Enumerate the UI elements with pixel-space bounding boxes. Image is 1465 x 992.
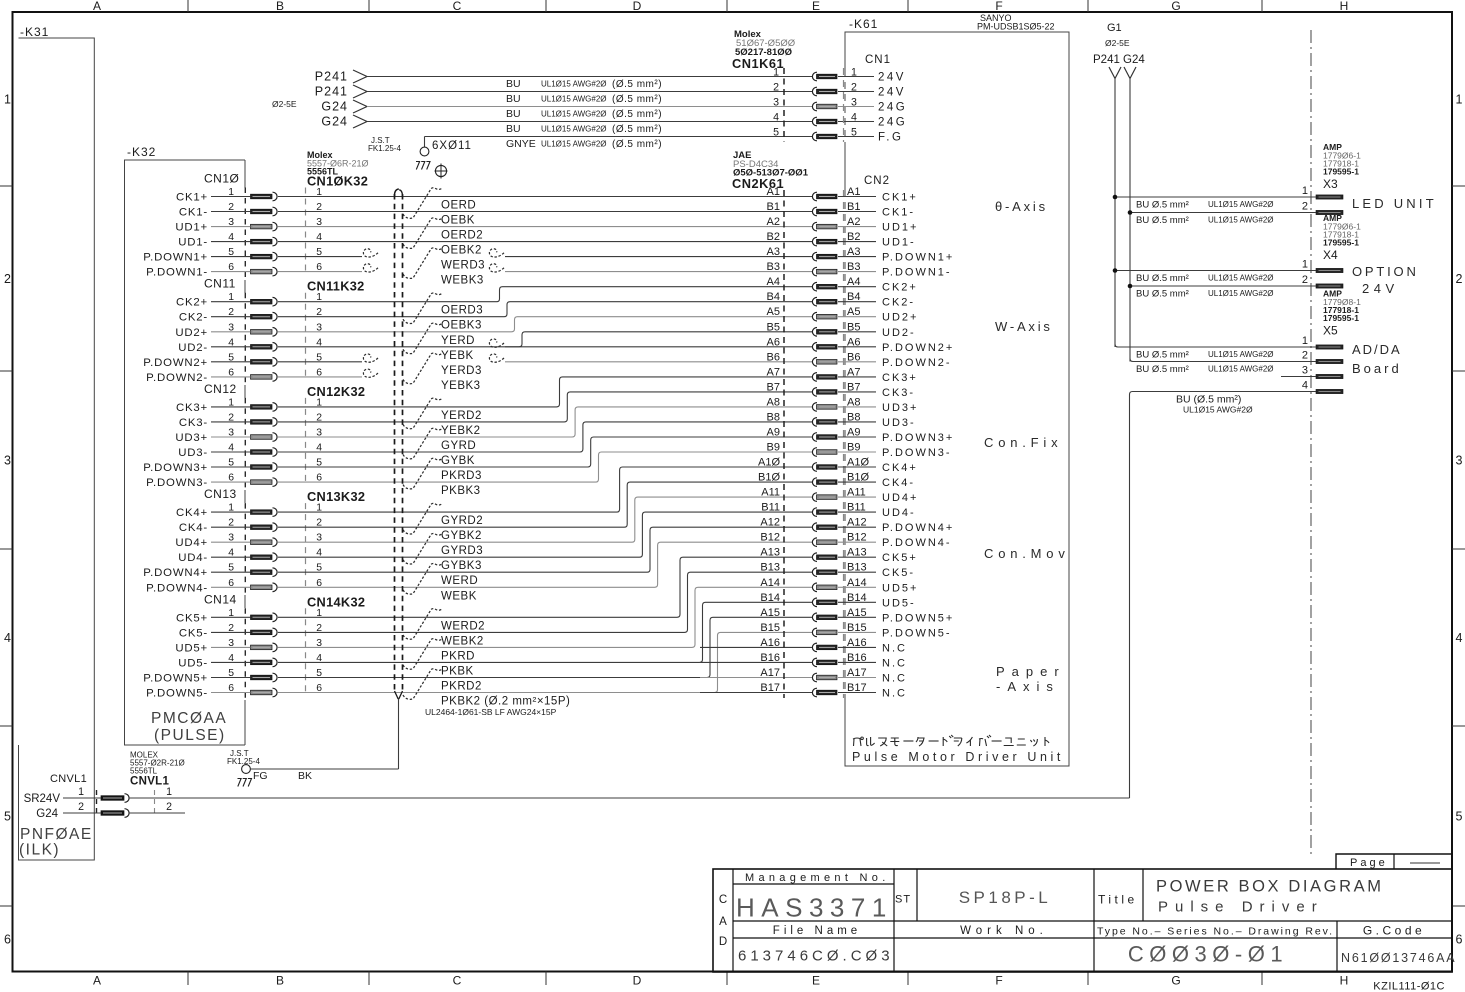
- wire P.DOWN3- (PKBK3) CN12 pin 6: [146, 452, 812, 497]
- svg-text:CK3-: CK3-: [882, 387, 915, 399]
- svg-text:CK2+: CK2+: [176, 297, 208, 309]
- connector X5 AMP 177908-1 AD/DA Board: [1302, 289, 1402, 394]
- svg-text:CØØ3Ø-Ø1: CØØ3Ø-Ø1: [1128, 942, 1288, 967]
- wire UD4+ (GYRD3) CN13 pin 3: [175, 497, 812, 557]
- svg-text:OEBK3: OEBK3: [441, 320, 482, 332]
- svg-text:6XØ11: 6XØ11: [432, 140, 472, 152]
- svg-text:A: A: [719, 916, 727, 928]
- svg-text:CK2-: CK2-: [179, 312, 208, 324]
- svg-text:PKRD: PKRD: [441, 650, 475, 662]
- wire CK2+ (OERD3) CN11 pin 1: [176, 287, 812, 317]
- wire P241 vertical bus: [1114, 79, 1116, 348]
- wire X3 pin1 from P241 bus: [1113, 195, 1316, 211]
- svg-text:CNVL1: CNVL1: [130, 776, 170, 788]
- svg-text:D: D: [719, 936, 727, 948]
- svg-text:E: E: [812, 974, 820, 988]
- wire CK4- (GYBK2) CN13 pin 2: [179, 482, 812, 542]
- svg-text:B3: B3: [767, 261, 780, 273]
- svg-text:B14: B14: [760, 592, 780, 604]
- svg-text:B1: B1: [767, 201, 780, 213]
- wire CK1- (OEBK) CN10 pin 2: [179, 188, 812, 227]
- svg-text:F: F: [995, 0, 1002, 13]
- svg-text:UL1Ø15 AWG#2Ø: UL1Ø15 AWG#2Ø: [1183, 405, 1253, 415]
- svg-text:W-Axis: W-Axis: [995, 319, 1053, 334]
- svg-text:PKBK: PKBK: [441, 665, 474, 677]
- svg-text:G24: G24: [321, 100, 348, 114]
- svg-text:UL1Ø15 AWG#2Ø: UL1Ø15 AWG#2Ø: [541, 110, 607, 119]
- svg-text:179595-1: 179595-1: [1323, 313, 1359, 323]
- svg-text:BU Ø.5 mm²: BU Ø.5 mm²: [1136, 350, 1189, 361]
- svg-text:(PULSE): (PULSE): [154, 727, 226, 744]
- svg-text:OPTION: OPTION: [1352, 264, 1419, 279]
- svg-text:G1: G1: [1107, 22, 1122, 34]
- svg-text:B1Ø: B1Ø: [758, 472, 780, 484]
- wire CN1 pin 4 24G: [321, 112, 907, 136]
- svg-text:-K61: -K61: [849, 17, 878, 31]
- wire UD5+ (PKRD) CN14 pin 3: [175, 587, 812, 662]
- ground terminal J.S.T FK1.25-4 6X011 with protective earth: [368, 136, 472, 179]
- svg-text:WERD2: WERD2: [441, 620, 485, 632]
- svg-text:A1: A1: [767, 186, 780, 198]
- svg-text:CK3+: CK3+: [882, 372, 918, 384]
- svg-text:CK2-: CK2-: [882, 297, 915, 309]
- svg-text:6: 6: [4, 932, 11, 946]
- connector CN2K61 JAE PS-D4C34 / 050-51307-001: [732, 150, 869, 698]
- svg-text:A11: A11: [761, 487, 780, 499]
- svg-text:B9: B9: [767, 442, 780, 454]
- connector CN14 / CN14K32 Molex 5557-06R-210: [204, 592, 365, 700]
- svg-text:4: 4: [1302, 380, 1308, 392]
- wire G24 vertical bus: [1129, 79, 1131, 362]
- svg-text:CK1-: CK1-: [179, 207, 208, 219]
- svg-text:PKBK2 (Ø.2 mm²×15P): PKBK2 (Ø.2 mm²×15P): [441, 696, 570, 708]
- svg-text:3: 3: [851, 97, 857, 109]
- svg-text:P.DOWN2+: P.DOWN2+: [143, 357, 208, 369]
- svg-text:CK1+: CK1+: [882, 192, 918, 204]
- svg-text:CK5-: CK5-: [179, 627, 208, 639]
- svg-text:Ø2-5E: Ø2-5E: [272, 99, 297, 109]
- svg-text:GYRD2: GYRD2: [441, 515, 483, 527]
- svg-text:179595-1: 179595-1: [1323, 238, 1359, 248]
- svg-text:P.DOWN4+: P.DOWN4+: [882, 522, 954, 534]
- label theta-Axis: [995, 199, 1048, 214]
- svg-text:Pulse Motor Driver Unit: Pulse Motor Driver Unit: [852, 750, 1064, 764]
- page box: [1336, 854, 1452, 869]
- svg-text:UL2464-1Ø61-SB LF AWG24×15P: UL2464-1Ø61-SB LF AWG24×15P: [425, 707, 557, 717]
- svg-text:F: F: [995, 974, 1002, 988]
- svg-text:Con.Fix: Con.Fix: [984, 435, 1062, 450]
- svg-text:OERD2: OERD2: [441, 230, 483, 242]
- wire X3 pin2 from G24 bus: [1128, 210, 1316, 226]
- svg-text:H: H: [1340, 974, 1349, 988]
- svg-text:UL1Ø15 AWG#2Ø: UL1Ø15 AWG#2Ø: [541, 95, 607, 104]
- svg-text:CK3+: CK3+: [176, 402, 208, 414]
- svg-text:(ILK): (ILK): [19, 842, 60, 859]
- svg-text:A6: A6: [767, 336, 780, 348]
- connector CN10 / CN10K32 Molex 5557-06R-210: [204, 150, 369, 280]
- wire CK3+ (YERD2) CN12 pin 1: [176, 377, 812, 422]
- svg-text:(Ø.5 mm²): (Ø.5 mm²): [612, 79, 662, 90]
- svg-text:UL1Ø15 AWG#2Ø: UL1Ø15 AWG#2Ø: [1208, 216, 1274, 225]
- svg-text:B7: B7: [767, 381, 780, 393]
- svg-text:2: 2: [1302, 350, 1308, 362]
- svg-text:1: 1: [1456, 93, 1463, 107]
- wire CK5+ (WERD2) CN14 pin 1: [176, 557, 812, 632]
- svg-text:P.DOWN1-: P.DOWN1-: [882, 267, 952, 279]
- wire X5 pin4 to SR24V (CNVL1): [1130, 392, 1317, 799]
- svg-text:GYRD: GYRD: [441, 440, 476, 452]
- wire SR24V CNVL1 pin1: [24, 793, 1130, 805]
- svg-text:A14: A14: [760, 577, 780, 589]
- svg-text:UD3+: UD3+: [882, 402, 918, 414]
- svg-text:YERD3: YERD3: [441, 365, 482, 377]
- svg-text:CN1Ø: CN1Ø: [204, 172, 239, 186]
- svg-text:WEBK3: WEBK3: [441, 275, 484, 287]
- svg-text:2: 2: [166, 801, 172, 813]
- svg-text:GYBK2: GYBK2: [441, 530, 482, 542]
- wire P.DOWN5- (PKBK2) CN14 pin 6: [146, 632, 812, 717]
- svg-text:BK: BK: [298, 770, 312, 782]
- svg-text:UD2-: UD2-: [178, 342, 208, 354]
- wire CN1 pin 3 24G: [321, 97, 907, 121]
- svg-text:C: C: [719, 894, 727, 906]
- svg-text:GYBK: GYBK: [441, 455, 475, 467]
- svg-text:C: C: [453, 0, 462, 13]
- svg-text:SR24V: SR24V: [24, 793, 61, 805]
- svg-text:A9: A9: [767, 427, 780, 439]
- svg-text:BU: BU: [506, 108, 521, 120]
- svg-text:P.DOWN3+: P.DOWN3+: [143, 462, 208, 474]
- title block: [713, 869, 1456, 972]
- svg-text:B13: B13: [760, 562, 780, 574]
- svg-text:A15: A15: [760, 607, 780, 619]
- svg-text:UD5-: UD5-: [178, 657, 208, 669]
- svg-text:OEBK: OEBK: [441, 215, 475, 227]
- svg-text:WERD: WERD: [441, 575, 478, 587]
- svg-text:GYRD3: GYRD3: [441, 545, 483, 557]
- svg-text:P.DOWN4-: P.DOWN4-: [146, 582, 208, 594]
- svg-text:Management No.: Management No.: [745, 872, 890, 884]
- svg-text:POWER BOX DIAGRAM: POWER BOX DIAGRAM: [1156, 878, 1384, 896]
- connector CN1K61 Molex 51067-0500 / 50217-8100: [732, 29, 844, 142]
- svg-text:CN1K61: CN1K61: [732, 56, 784, 71]
- svg-text:B5: B5: [767, 321, 780, 333]
- svg-text:A5: A5: [767, 306, 780, 318]
- svg-text:G: G: [1171, 974, 1180, 988]
- wire UD1+ (OERD2) CN10 pin 3: [175, 222, 812, 242]
- svg-text:GNYE: GNYE: [506, 138, 536, 150]
- svg-text:G: G: [1171, 0, 1180, 13]
- wire G24 CNVL1 pin2: [36, 808, 185, 820]
- svg-text:FK1.25-4: FK1.25-4: [227, 757, 260, 766]
- svg-text:Type No.– Series No.– Drawing: Type No.– Series No.– Drawing Rev.: [1097, 926, 1332, 938]
- svg-text:Work No.: Work No.: [960, 925, 1048, 937]
- svg-text:(Ø.5 mm²): (Ø.5 mm²): [612, 94, 662, 105]
- svg-text:G24: G24: [321, 115, 348, 129]
- svg-text:1: 1: [78, 786, 84, 798]
- svg-text:CK4-: CK4-: [179, 522, 208, 534]
- svg-text:P.DOWN4-: P.DOWN4-: [882, 537, 952, 549]
- pulse unit box -K32 PMC0AA (PULSE): [125, 145, 246, 745]
- svg-text:B: B: [276, 0, 284, 13]
- svg-text:OEBK2: OEBK2: [441, 245, 482, 257]
- connector CN13 / CN13K32 Molex 5557-06R-210: [204, 487, 365, 595]
- svg-text:UD3+: UD3+: [175, 432, 208, 444]
- svg-text:P.DOWN2-: P.DOWN2-: [882, 357, 952, 369]
- svg-text:24V: 24V: [878, 87, 906, 99]
- svg-text:24V: 24V: [1362, 281, 1399, 296]
- svg-text:B4: B4: [767, 291, 780, 303]
- svg-text:E: E: [812, 0, 820, 13]
- label Pulse Motor Driver Unit (Japanese katakana): [852, 735, 1064, 764]
- svg-text:PKBK3: PKBK3: [441, 485, 481, 497]
- wire CN1 pin 5 F.G: [425, 127, 904, 151]
- svg-text:YEBK: YEBK: [441, 350, 474, 362]
- svg-text:A2: A2: [767, 216, 780, 228]
- wire P.DOWN5+ (PKRD2) CN14 pin 5: [143, 617, 812, 692]
- svg-text:24V: 24V: [878, 72, 906, 84]
- svg-text:Title: Title: [1098, 893, 1138, 907]
- svg-text:-Axis: -Axis: [996, 679, 1060, 694]
- svg-text:GYBK3: GYBK3: [441, 560, 482, 572]
- svg-text:N61ØØ13746AA: N61ØØ13746AA: [1341, 951, 1456, 965]
- wire CN1 pin 1 24V: [315, 67, 906, 91]
- svg-text:X4: X4: [1323, 248, 1338, 262]
- svg-text:D: D: [633, 0, 642, 13]
- svg-text:A13: A13: [760, 547, 780, 559]
- connector X3 AMP 177906-1 LED UNIT: [1302, 142, 1437, 215]
- svg-text:P241: P241: [315, 85, 348, 99]
- relay box -K31 PNF0AE (ILK): [19, 25, 95, 860]
- svg-text:B11: B11: [761, 502, 780, 514]
- label W-Axis: [995, 319, 1053, 334]
- svg-text:A17: A17: [760, 667, 780, 679]
- svg-text:-K31: -K31: [20, 25, 49, 39]
- svg-text:179595-1: 179595-1: [1323, 167, 1359, 177]
- svg-text:UD2+: UD2+: [175, 327, 208, 339]
- svg-text:B6: B6: [767, 351, 780, 363]
- wire X5 pin2 from G24 bus (corner): [1130, 359, 1316, 376]
- svg-text:P.DOWN2-: P.DOWN2-: [146, 372, 208, 384]
- svg-text:CN1: CN1: [865, 54, 891, 66]
- svg-text:2: 2: [773, 82, 779, 94]
- wire P.DOWN1- (WEBK3) CN10 pin 6: [146, 248, 812, 287]
- svg-text:2: 2: [78, 801, 84, 813]
- svg-text:1: 1: [1302, 185, 1308, 197]
- svg-text:B17: B17: [760, 682, 780, 694]
- svg-text:PNFØAE: PNFØAE: [20, 826, 93, 843]
- svg-text:Board: Board: [1352, 361, 1402, 376]
- svg-text:N.C: N.C: [882, 657, 907, 669]
- svg-text:Pulse Driver: Pulse Driver: [1158, 899, 1324, 916]
- svg-text:P.DOWN1-: P.DOWN1-: [146, 267, 208, 279]
- svg-text:6: 6: [1456, 932, 1463, 946]
- svg-text:CK5+: CK5+: [882, 552, 918, 564]
- svg-text:UL1Ø15 AWG#2Ø: UL1Ø15 AWG#2Ø: [1208, 289, 1274, 298]
- svg-text:UL1Ø15 AWG#2Ø: UL1Ø15 AWG#2Ø: [541, 125, 607, 134]
- svg-text:1: 1: [1302, 259, 1308, 271]
- svg-text:A7: A7: [767, 366, 780, 378]
- svg-text:UD1+: UD1+: [882, 222, 918, 234]
- svg-text:FK1.25-4: FK1.25-4: [368, 144, 401, 153]
- svg-text:613746CØ.CØ3: 613746CØ.CØ3: [738, 948, 894, 965]
- svg-text:P.DOWN1+: P.DOWN1+: [882, 252, 954, 264]
- svg-text:BU: BU: [506, 123, 521, 135]
- svg-text:UL1Ø15 AWG#2Ø: UL1Ø15 AWG#2Ø: [541, 140, 607, 149]
- svg-text:(Ø.5 mm²): (Ø.5 mm²): [612, 109, 662, 120]
- svg-text:UD5+: UD5+: [175, 642, 208, 654]
- svg-text:LED UNIT: LED UNIT: [1352, 196, 1437, 211]
- svg-text:BU Ø.5 mm²: BU Ø.5 mm²: [1136, 289, 1189, 300]
- wire CK3- (YEBK2) CN12 pin 2: [179, 392, 812, 437]
- svg-text:CK4-: CK4-: [882, 477, 915, 489]
- svg-text:5556TL: 5556TL: [130, 767, 158, 776]
- svg-text:WERD3: WERD3: [441, 260, 485, 272]
- svg-text:1: 1: [1302, 335, 1308, 347]
- CN2 pin signal names: [838, 192, 954, 700]
- svg-text:UL1Ø15 AWG#2Ø: UL1Ø15 AWG#2Ø: [1208, 274, 1274, 283]
- svg-text:BU: BU: [506, 78, 521, 90]
- wire X4 pin2 from G24 bus: [1128, 284, 1316, 300]
- svg-text:B16: B16: [760, 652, 780, 664]
- svg-text:OERD: OERD: [441, 200, 476, 212]
- svg-text:G24: G24: [36, 808, 58, 820]
- connector CN12 / CN12K32 Molex 5557-06R-210: [204, 382, 365, 490]
- svg-text:24G: 24G: [878, 117, 907, 129]
- connector CN11 / CN11K32 Molex 5557-06R-210: [204, 277, 365, 385]
- svg-text:UD4+: UD4+: [175, 537, 208, 549]
- svg-text:B12: B12: [760, 532, 780, 544]
- svg-text:5: 5: [1456, 810, 1463, 824]
- wire X5 pin1 from P241 bus (corner): [1115, 344, 1316, 361]
- svg-text:B2: B2: [767, 231, 780, 243]
- svg-text:CK2+: CK2+: [882, 282, 918, 294]
- svg-text:Con.Mov: Con.Mov: [984, 546, 1070, 561]
- svg-text:X3: X3: [1323, 177, 1338, 191]
- svg-text:θ-Axis: θ-Axis: [995, 199, 1048, 214]
- svg-text:CK3-: CK3-: [179, 417, 208, 429]
- boundary line (dash-dot) power box edge: [1310, 30, 1312, 858]
- svg-text:X5: X5: [1323, 324, 1338, 338]
- svg-text:CN12: CN12: [204, 382, 237, 396]
- svg-text:A8: A8: [767, 396, 780, 408]
- svg-text:CN13: CN13: [204, 487, 237, 501]
- svg-text:YERD: YERD: [441, 335, 475, 347]
- svg-text:H: H: [1340, 0, 1349, 13]
- svg-text:Paper: Paper: [996, 664, 1066, 679]
- svg-text:P.DOWN3-: P.DOWN3-: [882, 447, 952, 459]
- svg-text:1: 1: [851, 67, 857, 79]
- svg-text:A4: A4: [767, 276, 780, 288]
- wire UD3+ (GYRD) CN12 pin 3: [175, 407, 812, 452]
- svg-text:WEBK: WEBK: [441, 590, 477, 602]
- svg-text:4: 4: [4, 631, 11, 645]
- svg-text:UD4-: UD4-: [178, 552, 208, 564]
- svg-text:UL1Ø15 AWG#2Ø: UL1Ø15 AWG#2Ø: [541, 80, 607, 89]
- svg-text:UD5-: UD5-: [882, 597, 916, 609]
- svg-text:ST: ST: [895, 894, 911, 906]
- wire CK4+ (GYRD2) CN13 pin 1: [176, 467, 812, 527]
- svg-text:A12: A12: [760, 517, 780, 529]
- wire X4 pin1 from P241 bus: [1113, 268, 1316, 284]
- svg-text:CN2: CN2: [864, 175, 890, 187]
- wire UD3- (GYBK) CN12 pin 4: [178, 422, 812, 467]
- svg-text:HAS3371: HAS3371: [736, 893, 893, 923]
- wire CK1+ (OERD) CN10 pin 1: [176, 192, 812, 212]
- svg-text:UL1Ø15 AWG#2Ø: UL1Ø15 AWG#2Ø: [1208, 365, 1274, 374]
- svg-text:BU Ø.5 mm²: BU Ø.5 mm²: [1136, 215, 1189, 226]
- svg-text:UD1-: UD1-: [178, 237, 208, 249]
- wire N.C stub row 32: [700, 677, 812, 679]
- svg-text:UD1+: UD1+: [175, 222, 208, 234]
- svg-text:5: 5: [4, 810, 11, 824]
- label Paper-Axis: [996, 664, 1066, 694]
- svg-text:P.DOWN5+: P.DOWN5+: [143, 673, 208, 685]
- label Con.Fix: [984, 435, 1062, 450]
- wire P.DOWN3+ (PKRD3) CN12 pin 5: [143, 437, 812, 482]
- svg-text:B: B: [276, 974, 284, 988]
- svg-text:A: A: [93, 0, 101, 13]
- svg-text:3: 3: [773, 97, 779, 109]
- svg-text:KZIL111-Ø1C: KZIL111-Ø1C: [1373, 981, 1445, 992]
- svg-text:2: 2: [1302, 274, 1308, 286]
- wire UD2+ (YERD) CN11 pin 3: [175, 317, 812, 347]
- svg-text:AD/DA: AD/DA: [1352, 342, 1402, 357]
- wire P.DOWN1+ (WERD3) CN10 pin 5: [143, 249, 812, 272]
- label 02-5E (top left): [272, 99, 297, 109]
- svg-text:CK5-: CK5-: [882, 567, 915, 579]
- svg-text:F.G: F.G: [878, 132, 903, 144]
- svg-text:C: C: [453, 974, 462, 988]
- svg-text:UD5+: UD5+: [882, 582, 918, 594]
- svg-text:24G: 24G: [878, 102, 907, 114]
- svg-text:CN11: CN11: [204, 277, 236, 291]
- svg-text:CN14: CN14: [204, 592, 237, 606]
- svg-text:P241: P241: [315, 70, 348, 84]
- wire UD4- (GYBK3) CN13 pin 4: [178, 512, 812, 572]
- svg-text:1: 1: [166, 786, 172, 798]
- svg-text:(Ø.5 mm²): (Ø.5 mm²): [612, 124, 662, 135]
- cable sheath UL2464 15P (dashed pair): [394, 189, 402, 699]
- svg-text:UD2+: UD2+: [882, 312, 918, 324]
- svg-text:4: 4: [1456, 631, 1463, 645]
- svg-text:UD4+: UD4+: [882, 492, 918, 504]
- svg-text:P241 G24: P241 G24: [1093, 54, 1145, 66]
- svg-text:P.DOWN5-: P.DOWN5-: [146, 688, 208, 700]
- svg-text:BU Ø.5 mm²: BU Ø.5 mm²: [1136, 200, 1189, 211]
- svg-text:P.DOWN1+: P.DOWN1+: [143, 252, 208, 264]
- svg-text:BU Ø.5 mm²: BU Ø.5 mm²: [1136, 273, 1189, 284]
- svg-text:4: 4: [851, 112, 857, 124]
- svg-text:5: 5: [851, 127, 857, 139]
- wire N.C stub row 33: [700, 692, 812, 694]
- svg-text:P.DOWN5+: P.DOWN5+: [882, 612, 954, 624]
- svg-text:CK4+: CK4+: [882, 462, 918, 474]
- svg-text:PMCØAA: PMCØAA: [151, 710, 227, 727]
- svg-text:P.DOWN4+: P.DOWN4+: [143, 567, 208, 579]
- wire P.DOWN4+ (WERD) CN13 pin 5: [143, 527, 812, 587]
- svg-text:P.DOWN3+: P.DOWN3+: [882, 432, 954, 444]
- wire P.DOWN4- (WEBK) CN13 pin 6: [146, 542, 812, 602]
- wire CN1 pin 2 24V: [315, 82, 906, 106]
- pulse motor driver unit box -K61 SANYO PM-UDSB1S05-22: [845, 13, 1069, 766]
- svg-text:5: 5: [773, 127, 779, 139]
- svg-text:B8: B8: [767, 411, 780, 423]
- wire P.DOWN2- (YEBK3) CN11 pin 6: [146, 353, 812, 392]
- svg-text:2: 2: [1302, 201, 1308, 213]
- svg-text:2: 2: [4, 272, 11, 286]
- svg-text:P.DOWN3-: P.DOWN3-: [146, 477, 208, 489]
